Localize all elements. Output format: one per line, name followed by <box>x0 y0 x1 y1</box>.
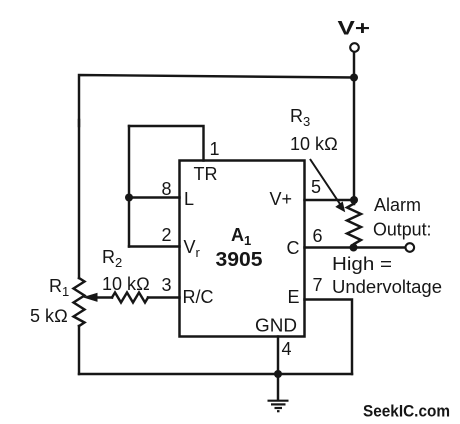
wire V+ terminal drop to top rail junction <box>353 53 355 78</box>
svg-text:R1: R1 <box>49 276 69 299</box>
wire V+ column down to pin 5 junction <box>353 78 355 205</box>
resistor R3 zigzag body <box>347 204 361 248</box>
svg-text:3905: 3905 <box>216 249 263 271</box>
wire alarm output lead to terminal <box>354 246 406 248</box>
svg-text:TR: TR <box>194 164 218 184</box>
node junction dot loop-left / pin8 <box>125 194 133 202</box>
resistor R2 zigzag body <box>112 293 148 303</box>
svg-text:Output:: Output: <box>373 220 432 240</box>
svg-text:Undervoltage: Undervoltage <box>332 277 442 297</box>
wire bottom rail <box>79 373 352 375</box>
op-amp/IC U1 A1 3905 body rectangle <box>180 161 305 337</box>
R3 label pointer arrow <box>310 159 345 212</box>
svg-text:4: 4 <box>282 339 292 359</box>
wire left rail lower (R1 bottom to bottom rail corner) <box>78 326 80 374</box>
svg-text:SeekIC.com: SeekIC.com <box>363 402 450 421</box>
svg-text:R2: R2 <box>102 247 122 270</box>
node junction dot pin6 / output <box>350 244 358 252</box>
svg-text:2: 2 <box>162 225 172 245</box>
svg-text:Vr: Vr <box>184 237 201 260</box>
terminal V+ open circle <box>350 43 359 52</box>
wire R2 to pin 3 <box>148 296 180 298</box>
svg-text:A1: A1 <box>231 225 251 248</box>
wire pin 8 stub <box>129 196 180 198</box>
svg-text:E: E <box>288 287 300 307</box>
svg-text:5: 5 <box>311 177 321 197</box>
wire pin 5 stub <box>305 199 355 201</box>
terminal alarm output open circle <box>406 243 415 252</box>
svg-text:Alarm: Alarm <box>374 195 421 215</box>
svg-text:10 kΩ: 10 kΩ <box>290 134 338 154</box>
svg-text:V+: V+ <box>270 189 293 209</box>
svg-text:V+: V+ <box>338 18 371 40</box>
svg-text:R3: R3 <box>290 106 310 129</box>
svg-text:5 kΩ: 5 kΩ <box>30 306 68 326</box>
wire pin 6 stub <box>305 246 354 248</box>
svg-text:R/C: R/C <box>183 287 214 307</box>
potentiometer R1 wiper arrow <box>83 293 98 302</box>
svg-text:GND: GND <box>255 316 297 336</box>
node junction dot top rail / V+ column <box>350 74 358 82</box>
svg-text:6: 6 <box>313 226 323 246</box>
svg-text:1: 1 <box>210 139 220 159</box>
svg-text:7: 7 <box>313 275 323 295</box>
svg-text:10 kΩ: 10 kΩ <box>102 274 150 294</box>
ground stem <box>277 374 279 400</box>
wire pin 4 GND drop <box>277 337 279 375</box>
wire R/C pin 3 lead with R2 <box>96 296 112 298</box>
svg-text:3: 3 <box>162 275 172 295</box>
svg-text:C: C <box>287 238 300 258</box>
ground symbol bars <box>268 401 289 412</box>
resistor R1 zigzag body <box>74 278 85 326</box>
wire feedback loop TR (top and pin1 stub) <box>129 126 204 161</box>
wire feedback loop left leg down to pin 2 <box>128 126 130 247</box>
node junction dot pin5 / R3 top <box>350 196 358 204</box>
wire top rail from left corner to V+ column <box>79 75 354 126</box>
node junction dot pin4 / bottom rail <box>274 370 282 378</box>
svg-text:L: L <box>184 189 194 209</box>
wire pin 2 stub <box>129 245 180 247</box>
wire left rail upper (corner down to R1 top) <box>78 120 80 278</box>
svg-text:8: 8 <box>162 179 172 199</box>
svg-text:High =: High = <box>332 254 392 274</box>
wire emitter E pin7 run (IC right to corner, down to bottom rail) <box>305 300 353 375</box>
